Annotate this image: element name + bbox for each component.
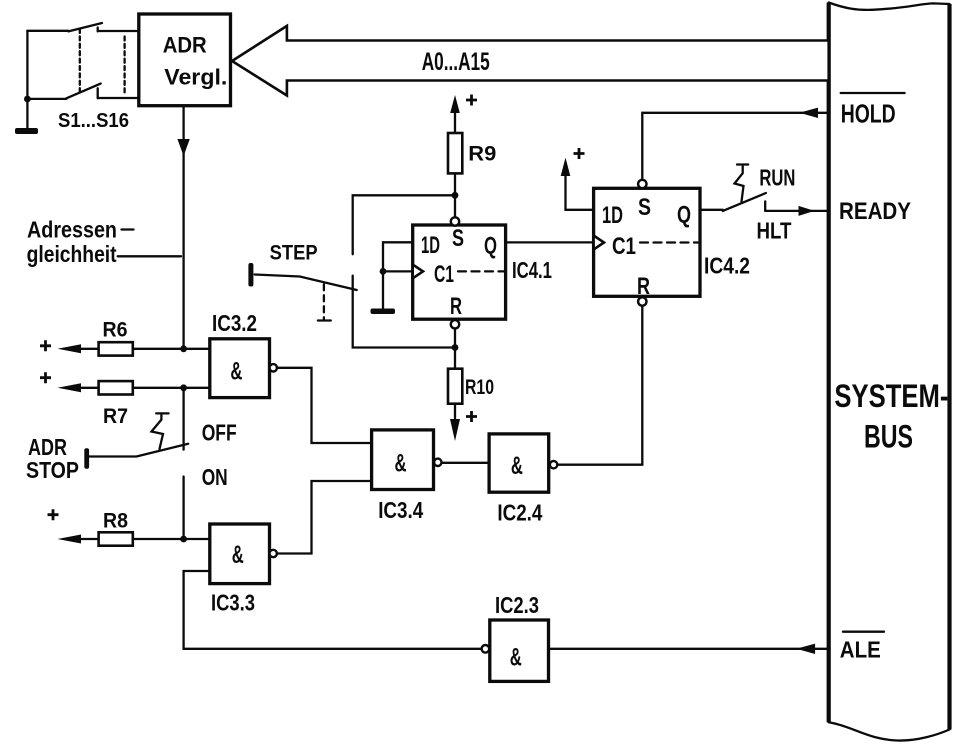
arrowhead R9 up to plus — [450, 95, 460, 113]
svg-text:Vergl.: Vergl. — [164, 65, 227, 90]
svg-text:READY: READY — [839, 198, 911, 225]
resistor R7 — [99, 381, 133, 394]
node junction R7 — [180, 384, 187, 391]
arrowhead HOLD pointing left — [799, 108, 818, 118]
flip-flop IC4.2 — [594, 188, 700, 296]
arrowhead R7 to plus — [58, 383, 82, 392]
node junction switch common — [24, 96, 31, 103]
wire IC4.2 Q to switch — [700, 209, 723, 211]
svg-text:R: R — [637, 273, 650, 300]
power + IC4.2 1D — [574, 148, 585, 159]
arrowhead R8 to plus — [58, 535, 82, 544]
svg-text:C1: C1 — [434, 261, 454, 288]
flip-flop IC4.1 — [413, 225, 506, 319]
wire R6 left — [79, 348, 99, 350]
wire IC2.4 output to IC4.2 R — [557, 306, 642, 465]
switch S16 blade — [66, 84, 100, 99]
net ALE label with overline — [843, 631, 884, 633]
svg-text:RUN: RUN — [759, 165, 795, 191]
wire R9 to IC4.1 S — [454, 173, 456, 217]
svg-text:Q: Q — [484, 233, 497, 260]
node junction 1D/C1 — [380, 268, 387, 275]
svg-text:IC3.2: IC3.2 — [212, 310, 257, 336]
svg-text:R7: R7 — [103, 405, 128, 428]
svg-text:BUS: BUS — [864, 418, 913, 454]
svg-text:IC2.3: IC2.3 — [495, 592, 539, 618]
svg-text:A0...A15: A0...A15 — [422, 48, 490, 76]
wire R9 top — [454, 110, 456, 133]
wire R7 left — [79, 387, 99, 389]
ground — [15, 128, 38, 134]
svg-text:IC4.1: IC4.1 — [512, 257, 552, 283]
dashed line C1 IC4.2 — [640, 241, 698, 243]
svg-text:1D: 1D — [421, 232, 440, 259]
svg-text:IC4.2: IC4.2 — [704, 253, 750, 279]
svg-text:R8: R8 — [103, 510, 128, 533]
svg-text:SYSTEM-: SYSTEM- — [834, 378, 948, 414]
nand gate IC3.4 — [372, 430, 434, 490]
switch S16 bottom wire — [27, 98, 66, 100]
switch S1 top wire — [27, 30, 68, 32]
wire IC2.3 output to IC3.3 input 2 — [184, 571, 482, 649]
svg-text:OFF: OFF — [202, 419, 237, 445]
node junction R6 — [180, 345, 187, 352]
svg-text:ADR: ADR — [163, 33, 207, 58]
resistor R10 — [454, 348, 456, 369]
leader line gleichheit — [118, 255, 181, 257]
svg-text:R6: R6 — [103, 319, 128, 342]
wire R8 left — [79, 538, 99, 540]
switch STEP blade — [255, 275, 357, 291]
wire IC4.1 Q to IC4.2 C1 — [506, 241, 594, 243]
bus arrow A0...A15 — [232, 26, 829, 96]
svg-text:&: & — [510, 644, 522, 672]
wire R10 down — [454, 404, 456, 421]
switch bank dashed link 1 — [79, 29, 81, 94]
svg-text:S1...S16: S1...S16 — [58, 110, 129, 132]
resistor R8 — [99, 532, 133, 545]
nand gate IC3.2 — [210, 339, 270, 398]
switch bank dashed link 2 — [123, 37, 125, 95]
switch STEP plunger — [248, 263, 253, 287]
svg-text:&: & — [395, 450, 407, 478]
svg-text:ALE: ALE — [840, 637, 881, 663]
ground at IC4.1 — [371, 309, 396, 315]
switch ADR STOP blade — [89, 444, 188, 457]
arrowhead ALE pointing left — [796, 644, 815, 654]
power + R6 — [40, 340, 51, 351]
power + R9 — [466, 95, 477, 106]
svg-text:IC3.4: IC3.4 — [378, 497, 423, 523]
pin S circle IC4.2 — [638, 180, 646, 188]
svg-text:IC3.3: IC3.3 — [211, 589, 255, 615]
wire junction R7 down to ADR STOP contact OFF — [182, 388, 184, 450]
svg-text:S: S — [638, 194, 651, 221]
clock triangle IC4.1 — [413, 265, 423, 279]
switch RUN/HLT blade — [723, 193, 766, 211]
system bus right edge — [947, 4, 951, 730]
clock triangle IC4.2 — [594, 236, 604, 250]
arrowhead READY pointing right — [799, 206, 815, 216]
switch S1 contact — [98, 28, 139, 32]
comparator U ADR Vergl. — [139, 14, 231, 106]
svg-text:&: & — [232, 541, 244, 569]
svg-text:STEP: STEP — [270, 242, 318, 265]
svg-text:STOP: STOP — [26, 457, 79, 483]
nand gate IC3.3 — [210, 524, 270, 584]
svg-text:R9: R9 — [468, 143, 496, 166]
resistor R6 — [99, 342, 133, 355]
wire Adressengleichheit vertical — [182, 106, 184, 349]
power + R10 — [466, 411, 477, 422]
switch ADR STOP actuator spring — [152, 413, 169, 449]
power + R7 — [40, 372, 51, 383]
wire ON contact down to R8 junction — [182, 477, 184, 540]
wire switch bank left vertical — [26, 31, 28, 129]
node junction S side — [452, 192, 459, 199]
system bus torn bottom edge — [829, 722, 950, 740]
wire READY to bus — [765, 210, 829, 212]
svg-text:R: R — [450, 293, 462, 320]
svg-text:R10: R10 — [465, 376, 494, 399]
svg-text:Q: Q — [677, 202, 691, 229]
svg-text:HOLD: HOLD — [841, 98, 896, 128]
power + R8 — [48, 509, 59, 520]
wire R7 to IC3.2 input 2 — [133, 387, 210, 389]
nand gate IC2.3 — [490, 620, 549, 681]
wire STEP bracket top — [353, 195, 455, 254]
svg-text:1D: 1D — [602, 202, 623, 229]
net HOLD label with overline — [841, 92, 905, 94]
svg-text:IC2.4: IC2.4 — [497, 500, 542, 526]
wire R8 to IC3.3 input 1 — [133, 538, 210, 540]
svg-text:C1: C1 — [612, 233, 636, 260]
dashed line C1 IC4.1 — [458, 270, 504, 272]
svg-text:HLT: HLT — [757, 217, 792, 243]
arrowhead down on Adressengleichheit wire — [177, 139, 189, 156]
switch S1 blade — [68, 23, 102, 31]
pin R circle IC4.1 — [451, 320, 459, 328]
system bus left edge — [827, 3, 831, 723]
arrowhead R10 down to plus — [450, 419, 460, 441]
wire IC3.4 output to IC2.4 input — [442, 462, 489, 464]
nand gate IC2.4 — [489, 434, 549, 492]
switch STEP actuator dashed — [323, 284, 325, 319]
wire IC4.1 1D and C1 input — [383, 242, 413, 308]
svg-text:S: S — [452, 225, 464, 252]
wire HOLD from bus to IC4.2 S — [642, 113, 828, 180]
pin R circle IC4.2 — [638, 297, 646, 305]
arrowhead R6 to plus — [58, 344, 82, 353]
wire STEP bracket bottom — [353, 276, 455, 348]
switch S16 contact — [98, 88, 139, 98]
wire R6 to IC3.2 input 1 — [133, 348, 210, 350]
switch RUN/HLT actuator spring — [735, 165, 749, 202]
wire IC4.1 R to junction — [454, 329, 456, 348]
wire ALE from bus to IC2.3 — [549, 648, 829, 650]
wire IC3.3 output to IC3.4 input 2 — [277, 481, 372, 554]
resistor R9 — [448, 133, 462, 173]
wire IC4.2 1D to plus — [566, 174, 594, 210]
switch ADR STOP plunger — [84, 448, 89, 468]
arrowhead 1D plus — [561, 158, 571, 176]
svg-text:gleichheit: gleichheit — [27, 241, 117, 267]
system bus torn top edge — [829, 3, 950, 10]
svg-text:&: & — [511, 452, 523, 480]
svg-text:&: & — [230, 357, 242, 385]
svg-text:ON: ON — [202, 464, 228, 490]
node junction R side — [452, 344, 459, 351]
svg-text:Adressen: Adressen — [27, 217, 117, 243]
node junction R8 — [180, 536, 187, 543]
switch RUN/HLT contact — [764, 201, 766, 211]
wire IC3.2 output to IC3.4 input 1 — [277, 368, 372, 443]
pin S circle IC4.1 — [451, 217, 459, 225]
